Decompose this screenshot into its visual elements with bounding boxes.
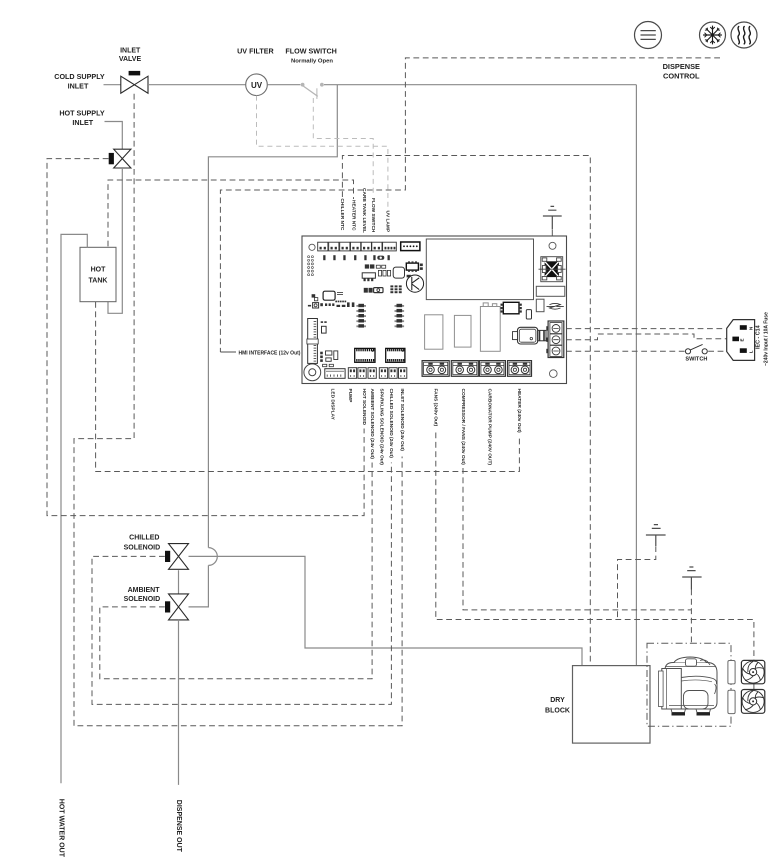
wire chilled solenoid control: valve to CHILLED SOLENOID terminal xyxy=(92,463,391,705)
wire inlet solenoid control: valve to INLET SOLENOID terminal xyxy=(74,94,402,726)
wire mains E: PCB to IEC socket xyxy=(566,334,729,340)
svg-text:HOT WATER OUT: HOT WATER OUT xyxy=(58,799,65,858)
output connector row J11-J16 xyxy=(348,368,407,379)
smd row under U3 xyxy=(335,301,346,307)
svg-text:UV LAMP: UV LAMP xyxy=(385,211,391,233)
svg-text:HEATER NTC: HEATER NTC xyxy=(350,200,356,231)
compressor xyxy=(659,657,718,716)
wire UV filter to flow switch xyxy=(267,84,300,86)
wire hop over chilled line xyxy=(208,548,217,566)
label DISPENSE CONTROL xyxy=(663,62,700,81)
wire chilled valve to ambient valve xyxy=(178,570,180,593)
snubber capacitor C2 xyxy=(526,310,531,319)
dispense control icons: hot button (heat waves) xyxy=(731,22,757,48)
svg-text:COLD SUPPLY: COLD SUPPLY xyxy=(54,72,105,81)
label HMI INTERFACE (12v Out) xyxy=(220,350,300,356)
inlet valve (solenoid valve, horizontal bowtie) xyxy=(121,71,148,93)
svg-text:FANS (240v Out): FANS (240v Out) xyxy=(433,389,439,427)
mains switch xyxy=(685,344,707,354)
resistor network RN2 xyxy=(395,304,405,328)
wire ground2 to compressor enclosure xyxy=(690,590,692,644)
svg-text:HEATER (240v Out): HEATER (240v Out) xyxy=(516,389,522,434)
ground symbol 3 (earth, PCB) xyxy=(543,206,562,229)
svg-text:CHILLED: CHILLED xyxy=(129,535,159,542)
wire mains N: PCB to IEC socket xyxy=(566,328,726,330)
small parts near HMI xyxy=(320,321,338,366)
wire flow switch sense line (grey) xyxy=(313,98,373,197)
terminal block carbonator pump xyxy=(479,361,505,377)
mains transformer T1 xyxy=(539,257,566,282)
ground symbol 1 (earth, compressor circuit) xyxy=(646,525,666,546)
svg-text:HOT: HOT xyxy=(91,267,107,274)
power diode D1 xyxy=(393,267,404,278)
relay K3 xyxy=(480,303,500,351)
resistor network RN1 xyxy=(356,304,366,328)
svg-text:DISPENSE: DISPENSE xyxy=(663,62,700,71)
wire dispense control to HMI interface xyxy=(220,58,720,352)
svg-text:SPARKLING SOLENOID (24v Out): SPARKLING SOLENOID (24v Out) xyxy=(379,389,385,466)
dry block xyxy=(545,666,650,744)
wire inlet valve to UV filter xyxy=(148,84,246,86)
svg-text:TANK: TANK xyxy=(89,278,108,285)
PCB mounting hole top-right xyxy=(549,242,556,249)
wire fans supply: FANS terminal to fans xyxy=(436,433,754,661)
svg-text:AMBIENT: AMBIENT xyxy=(128,587,161,594)
wire ground1 to fans line xyxy=(618,546,656,619)
svg-text:PUMP: PUMP xyxy=(347,389,353,404)
PCB main board xyxy=(302,236,567,384)
svg-text:LED DISPLAY: LED DISPLAY xyxy=(330,389,336,421)
relay K1 xyxy=(425,315,443,349)
svg-text:E: E xyxy=(739,338,744,341)
label AMBIENT SOLENOID xyxy=(124,587,161,603)
terminal block heater xyxy=(508,361,532,377)
decoupling resistor row xyxy=(323,255,390,260)
svg-text:HMI INTERFACE (12v Out): HMI INTERFACE (12v Out) xyxy=(239,350,301,356)
input connector row J1-J6 xyxy=(318,242,397,251)
fuse F1 xyxy=(513,327,547,344)
UV filter (circle) xyxy=(246,74,268,96)
electrolytic capacitor C1 xyxy=(406,275,423,292)
flow switch (normally open contact) xyxy=(301,83,324,99)
inductor L1 row xyxy=(364,288,383,293)
svg-text:Normally Open: Normally Open xyxy=(291,58,333,64)
wire hot solenoid control: valve to HOT SOLENOID terminal xyxy=(47,159,364,516)
run capacitor 1 xyxy=(728,661,735,684)
svg-text:IEC - C14: IEC - C14 xyxy=(755,325,761,349)
svg-text:UV: UV xyxy=(251,81,263,90)
PCB mounting hole top-left xyxy=(309,244,315,250)
regulator circuit components xyxy=(362,265,390,281)
label CHILLED SOLENOID xyxy=(124,535,161,552)
diode D2 xyxy=(547,303,564,309)
svg-text:FLOW SWITCH: FLOW SWITCH xyxy=(370,198,376,233)
wire cold supply inlet to inlet valve xyxy=(104,84,121,86)
wire heater NTC: hot tank to label xyxy=(108,180,354,246)
filter module white box xyxy=(536,286,565,296)
fan 2 xyxy=(741,690,764,714)
dispense control icons: cold button (snowflake) xyxy=(700,22,726,48)
IEC C14 mains inlet socket xyxy=(727,320,755,361)
microcontroller U3 xyxy=(323,291,343,300)
svg-text:L: L xyxy=(749,350,754,353)
hot tank xyxy=(80,247,116,301)
programming header J8 xyxy=(401,242,420,251)
mains terminal block J17 xyxy=(546,321,564,358)
svg-text:CHILLER NTC: CHILLER NTC xyxy=(339,198,345,231)
svg-text:CONTROL: CONTROL xyxy=(663,72,700,81)
svg-text:DISPENSE OUT: DISPENSE OUT xyxy=(175,800,182,853)
wire hot tank top to hot water out xyxy=(61,234,87,783)
smd resistor bank xyxy=(390,285,401,293)
svg-text:HOT SOLENOID: HOT SOLENOID xyxy=(361,389,367,426)
svg-text:CHILLED SOLENOID (24v Out): CHILLED SOLENOID (24v Out) xyxy=(388,389,394,459)
ground symbol 2 (earth, fans circuit) xyxy=(682,567,701,590)
svg-text:CARB TANK LEVEL: CARB TANK LEVEL xyxy=(361,188,367,233)
compressor enclosure (dash-dot boundary) xyxy=(647,643,731,726)
svg-text:CARBONATOR PUMP (240V OUT): CARBONATOR PUMP (240V OUT) xyxy=(486,389,492,466)
svg-text:FLOW SWITCH: FLOW SWITCH xyxy=(285,47,337,56)
ambient solenoid valve xyxy=(165,594,189,620)
wire hot valve to hot tank bottom xyxy=(108,168,122,313)
label INLET VALVE xyxy=(119,47,142,63)
label FLOW SWITCH Normally Open xyxy=(285,47,337,65)
svg-text:INLET: INLET xyxy=(68,82,89,91)
PCB mounting hole bottom-right xyxy=(550,370,558,378)
label COLD SUPPLY INLET xyxy=(54,72,105,90)
triac IC U6 xyxy=(501,302,522,314)
wire compressor supply: COMPRESSOR terminal to compressor earth node xyxy=(463,468,691,610)
test point pads column xyxy=(308,256,314,276)
svg-text:~240v Input / 10A Fuse: ~240v Input / 10A Fuse xyxy=(764,312,768,366)
chilled solenoid valve xyxy=(165,544,189,570)
varistor RV1 xyxy=(536,299,544,312)
wire mains L: PCB to switch xyxy=(566,350,685,352)
svg-text:INLET: INLET xyxy=(120,47,141,54)
terminal block compressor xyxy=(451,361,478,377)
wire UV lamp supply line (grey) xyxy=(257,96,388,209)
run capacitor 2 xyxy=(728,690,735,713)
svg-text:VALVE: VALVE xyxy=(119,56,142,63)
HMI interface connector J9 xyxy=(307,319,318,364)
relay K2 xyxy=(454,315,471,347)
label HOT SUPPLY INLET xyxy=(59,109,104,127)
svg-text:COMPRESSOR / FANS (240v Out): COMPRESSOR / FANS (240v Out) xyxy=(460,389,466,466)
svg-text:AMBIENT SOLENOID (24v Out): AMBIENT SOLENOID (24v Out) xyxy=(369,389,375,460)
wire ambient solenoid control: valve to AMBIENT SOLENOID terminal xyxy=(100,463,372,679)
wire earth ground3 to PCB xyxy=(551,230,553,242)
svg-text:SOLENOID: SOLENOID xyxy=(124,596,161,603)
wire switch to IEC socket xyxy=(708,350,728,352)
svg-text:UV FILTER: UV FILTER xyxy=(237,47,274,56)
svg-text:INLET SOLENOID (24v Out): INLET SOLENOID (24v Out) xyxy=(399,389,405,452)
wire chilled valve to dry block xyxy=(189,556,583,665)
svg-text:HOT SUPPLY: HOT SUPPLY xyxy=(59,109,104,118)
wire hot supply inlet to hot valve xyxy=(105,122,123,150)
dispense control icons: ambient button xyxy=(635,22,662,49)
small parts cluster left of U3 xyxy=(308,294,355,308)
driver IC U2 xyxy=(406,261,423,271)
terminal block fans xyxy=(422,361,449,377)
fan 1 xyxy=(741,660,764,683)
wire chiller NTC: label to dry block xyxy=(342,156,590,666)
opto IC U4 xyxy=(355,348,375,362)
wire heater supply: hot tank to HEATER terminal xyxy=(96,302,520,472)
svg-text:BLOCK: BLOCK xyxy=(545,707,570,714)
wire between fans xyxy=(753,684,755,689)
LED display connector J10 xyxy=(325,369,345,379)
svg-text:SOLENOID: SOLENOID xyxy=(124,544,161,551)
svg-text:INLET: INLET xyxy=(72,118,93,127)
svg-text:SWITCH: SWITCH xyxy=(685,357,707,363)
wire flow switch output to dry block (main water line) xyxy=(324,85,636,666)
wire branch to chilled/ambient feed xyxy=(208,85,337,548)
hot supply solenoid valve (vertical bowtie) xyxy=(109,149,131,168)
opto IC U5 xyxy=(386,348,405,362)
wire ambient valve to dispense out xyxy=(178,620,180,785)
PCB mounting hole bottom-left xyxy=(304,364,321,381)
display connector white area xyxy=(426,239,533,300)
wire down to ambient valve xyxy=(189,565,209,607)
svg-text:DRY: DRY xyxy=(550,697,565,704)
